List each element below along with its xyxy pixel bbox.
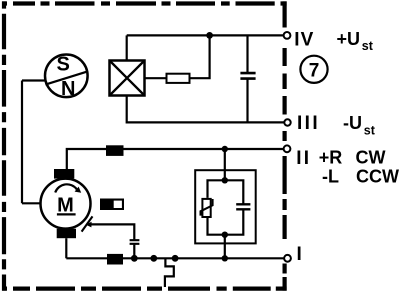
wire: bottom rail to terminal I: [66, 257, 284, 259]
resistor R1: [167, 74, 190, 83]
terminal I: [284, 255, 291, 262]
wire: left vertical rail: [21, 81, 23, 204]
svg-text:st: st: [364, 124, 376, 138]
capacitor C3: [236, 204, 250, 209]
svg-text:M: M: [57, 195, 74, 217]
wire: suppressor top lead: [224, 149, 226, 180]
thermal breaker F1 (half-filled block): [100, 199, 124, 211]
svg-text:+R: +R: [319, 148, 343, 168]
M underline: [57, 213, 76, 215]
node: bottom rail b: [172, 255, 179, 262]
svg-text:st: st: [362, 39, 374, 53]
wire: converter bottom rail to terminal III: [127, 96, 284, 123]
svg-text:-U: -U: [343, 113, 362, 133]
svg-text:IV: IV: [294, 29, 314, 50]
terminal IV: [284, 32, 291, 39]
wire: capacitor C1 bottom lead: [246, 80, 248, 123]
svg-text:III: III: [297, 113, 320, 134]
wire: suppressor bottom lead: [224, 235, 226, 259]
wire: inner parallel loop: [208, 180, 244, 234]
motor M1: [41, 179, 91, 229]
node: bottom rail a: [150, 255, 157, 262]
wire: to motor left: [22, 202, 41, 204]
wire: bottom brush lead: [65, 238, 67, 258]
node: bottom rail / suppressor branch: [222, 255, 228, 261]
terminal III: [284, 119, 290, 125]
housing dashed border right (segments leaving gaps at terminals): [283, 1, 287, 290]
node: inner loop top: [222, 177, 228, 183]
svg-text:CW: CW: [356, 148, 386, 168]
adjustment arrow at motor (third brush): [82, 216, 93, 231]
magnet pole divider line: [45, 72, 87, 85]
svg-text:S: S: [57, 54, 70, 76]
housing dashed border top: [2, 1, 287, 5]
wire: converter top lead: [126, 35, 128, 61]
wire: third brush to capacitor C2: [91, 224, 135, 239]
terminal II: [284, 145, 291, 152]
svg-text:+U: +U: [337, 29, 361, 49]
varistor RV1: [202, 199, 210, 217]
choke L1 on terminal II wire: [106, 145, 124, 156]
rotation arrow arc: [55, 184, 77, 192]
svg-text:7: 7: [309, 61, 320, 82]
motor top brush: [54, 169, 74, 179]
wire: converter to resistor: [145, 77, 167, 79]
housing dashed border left: [2, 1, 6, 290]
capacitor C1: [240, 73, 255, 79]
wire: top rail to terminal IV: [127, 34, 284, 36]
capacitor C2: [130, 240, 140, 244]
magnet sensor B1 (S/N circle): [45, 55, 88, 98]
svg-text:-L: -L: [322, 167, 339, 187]
choke L2 on bottom rail: [107, 254, 123, 265]
wire: motor to terminal II: [67, 149, 284, 170]
converter U1 (box with X): [110, 61, 145, 96]
wire: capacitor C1 top lead: [246, 35, 248, 73]
svg-text:I: I: [297, 244, 302, 265]
svg-text:II: II: [296, 148, 311, 169]
motor bottom brush: [57, 229, 76, 239]
suppressor box (outer): [195, 170, 256, 243]
designator circle 7: [300, 56, 327, 83]
wire: sensor stub left: [22, 79, 46, 81]
wire: capacitor C2 to bottom rail: [133, 245, 135, 259]
node: bottom rail / C2: [131, 255, 138, 262]
node: junction II wire / suppressor branch: [222, 146, 228, 152]
node: junction top rail / resistor branch: [206, 32, 213, 39]
wire: resistor to top rail: [190, 35, 210, 78]
svg-text:N: N: [61, 78, 75, 100]
wire: chassis jog to housing: [165, 258, 174, 287]
node: inner loop bottom: [222, 232, 228, 238]
svg-text:CCW: CCW: [356, 167, 399, 187]
housing dashed border bottom: [2, 287, 287, 291]
